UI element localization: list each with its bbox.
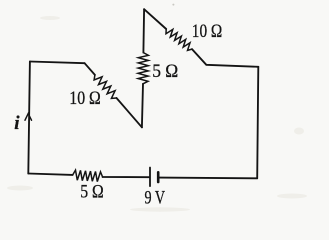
svg-text:i: i <box>14 113 20 134</box>
wire battery to R4 <box>103 176 149 178</box>
resistor R2 10 ohm (left diagonal) <box>94 75 116 99</box>
wire middle vertical lower <box>142 84 143 128</box>
current arrow head <box>25 114 32 121</box>
resistor R3 5 ohm (middle vertical) <box>138 53 148 84</box>
svg-text:5 Ω: 5 Ω <box>152 61 178 82</box>
wire top-left horizontal <box>30 62 85 64</box>
svg-text:10 Ω: 10 Ω <box>192 21 223 42</box>
wire bottom left to corner <box>28 174 72 175</box>
svg-text:10 Ω: 10 Ω <box>69 88 101 109</box>
wire bottom right to battery <box>159 177 257 180</box>
wire diagonal to node V <box>117 98 142 127</box>
wire apex diagonal into R1 <box>144 9 166 29</box>
wire middle vertical upper to apex <box>142 9 145 52</box>
wire left vertical <box>28 62 30 174</box>
wire diagonal into R2 <box>85 63 95 75</box>
faint scan smudges (background texture) <box>7 4 307 212</box>
svg-text:9 V: 9 V <box>145 187 166 208</box>
wire right vertical <box>257 67 258 179</box>
resistor R1 10 ohm (top diagonal) <box>166 29 192 50</box>
resistor R4 5 ohm (bottom horizontal) <box>73 170 103 182</box>
wire diagonal then top-right horizontal <box>192 49 258 67</box>
svg-text:5 Ω: 5 Ω <box>80 182 104 203</box>
battery B1 long plate <box>149 168 151 187</box>
battery B1 short plate <box>157 172 160 182</box>
